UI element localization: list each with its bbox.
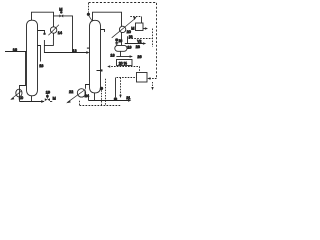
node 18 leader line: [38, 46, 41, 62]
svg-text:19: 19: [127, 45, 131, 49]
wire condenser to drum: [53, 33, 55, 40]
wire bottoms valve stem T2: [115, 78, 117, 98]
svg-text:V2: V2: [137, 40, 141, 44]
analyzer ball T2 side: [100, 87, 103, 90]
wire dashed from right edge into controller: [150, 78, 157, 80]
pump P2: [77, 89, 85, 97]
wire T1 overhead vapor line: [32, 12, 54, 20]
wire dashed into controller from left: [117, 77, 137, 79]
wire T2 pressure tap stub: [101, 30, 105, 33]
wire dashed mid riser: [105, 79, 107, 106]
wire feed tick into T2: [87, 47, 90, 49]
svg-text:16: 16: [13, 48, 17, 52]
wire bottoms line T2: [94, 93, 96, 101]
svg-text:12: 12: [72, 49, 76, 53]
analyzer box 20%: [117, 60, 133, 66]
column T1: [27, 20, 38, 96]
wire product line 23: [125, 43, 144, 45]
arrow condenser slash: [48, 25, 59, 36]
svg-text:M: M: [59, 8, 62, 12]
wire feed line 16: [5, 51, 27, 53]
wire dashed pump riser: [79, 101, 81, 106]
reflux drum D2 capsule: [115, 45, 127, 51]
wire after valve: [50, 101, 52, 103]
svg-text:22: 22: [69, 90, 73, 94]
svg-text:28: 28: [129, 35, 133, 39]
arrow condenser2 slash with head: [112, 19, 135, 38]
wire dashed signal from top line to ball: [88, 3, 90, 13]
condenser C1 circle: [50, 27, 56, 33]
wire dashed top long signal: [89, 3, 157, 79]
wire inlet to P2 from column: [86, 85, 90, 89]
wire dashed controller branch down: [120, 78, 122, 97]
svg-text:20: 20: [127, 30, 131, 34]
wire dashed down from arrow: [152, 29, 154, 48]
svg-text:24: 24: [85, 94, 89, 98]
valve M1 reflux: [59, 14, 63, 17]
wire drum2 outlet to 26: [120, 51, 122, 56]
svg-text:21: 21: [126, 96, 130, 100]
node side tap T2 wall: [97, 70, 102, 72]
svg-text:20 %: 20 %: [119, 62, 128, 66]
svg-text:14: 14: [58, 31, 62, 35]
wire dashed signal mid right: [129, 38, 153, 40]
svg-text:18: 18: [110, 53, 114, 57]
instrument box top right: [136, 23, 144, 31]
wire from box to arrow right: [143, 28, 146, 30]
wire dashed stub below controller: [152, 82, 154, 89]
wire feed branch down to pump: [20, 52, 26, 90]
wire dashed under analyzer: [108, 66, 139, 68]
arrow product 21: [128, 99, 131, 102]
arrow into valve: [41, 100, 44, 103]
arrow P1 variable arrow: [11, 91, 22, 99]
svg-text:19: 19: [46, 91, 50, 95]
pump P1: [16, 89, 22, 97]
condenser C2 circle: [119, 26, 125, 32]
wire P1 shaft line: [19, 89, 21, 101]
valve ball bottoms T2: [114, 97, 118, 101]
wire dashed stub to box: [130, 16, 141, 18]
wire T1 pressure tap stub: [38, 31, 45, 34]
reflux drum D1: [44, 40, 53, 45]
svg-text:23: 23: [136, 45, 140, 49]
svg-text:M: M: [131, 27, 134, 31]
arrow product 23 head: [143, 42, 146, 45]
valve ball reflux T2: [87, 13, 90, 16]
wire ball valve into drum D2: [116, 41, 118, 45]
controller box FC: [137, 73, 148, 83]
wire condenser2 to drum2: [121, 32, 123, 45]
svg-text:26: 26: [137, 55, 141, 59]
wire reflux line with valve M: [54, 16, 73, 53]
valve V1 bottoms: [45, 98, 50, 101]
column T2: [90, 20, 101, 93]
valve ball on slash: [115, 38, 118, 41]
wire drum outlet to transfer line 12: [44, 45, 88, 52]
wire bottoms line T1: [31, 96, 33, 102]
svg-text:18: 18: [39, 64, 43, 68]
wire into condenser: [53, 16, 55, 27]
svg-text:M: M: [53, 96, 56, 100]
wire dashed analyzer down: [101, 90, 103, 105]
node flange ticks: [115, 42, 118, 44]
wire riser to product line 23: [127, 36, 129, 43]
wire P2 through line: [84, 90, 86, 98]
node V1 actuator ball: [46, 95, 49, 98]
svg-text:10: 10: [19, 96, 23, 100]
wire T2 overhead: [93, 12, 122, 26]
arrow into column T2: [86, 51, 89, 54]
arrow P2 variable arrow: [68, 90, 85, 102]
wire dashed bottom long: [80, 105, 122, 107]
